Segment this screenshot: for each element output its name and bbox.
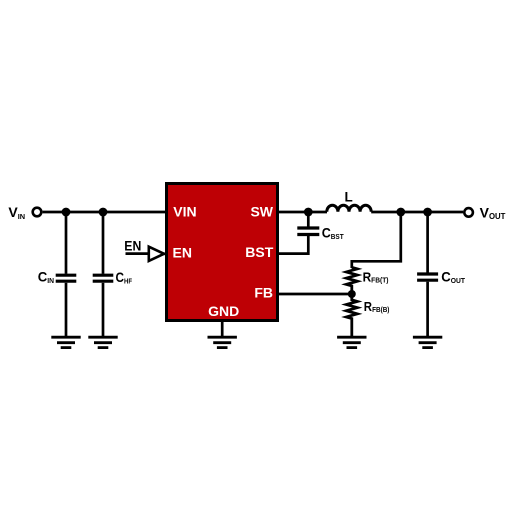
- junction out-COUT: [423, 208, 432, 217]
- svg-text:EN: EN: [173, 245, 192, 261]
- wire FB pin: [278, 293, 353, 296]
- op-amp U1 IC body: [167, 184, 278, 321]
- junction input-CHF: [99, 208, 108, 217]
- svg-text:CIN: CIN: [38, 269, 54, 285]
- ground CIN: [51, 337, 80, 347]
- inductor L: [327, 205, 371, 212]
- wire EN tip to IC: [164, 252, 168, 255]
- terminal VOUT: [464, 208, 473, 217]
- junction SW-CBST: [304, 208, 313, 217]
- capacitor CIN: [56, 275, 77, 281]
- wire CBST to BST pin: [278, 236, 309, 254]
- wire CHF top lead: [102, 212, 105, 274]
- resistor RFB(B): [346, 294, 357, 337]
- ground RFB(B): [337, 337, 366, 347]
- wire inductor to VOUT: [371, 211, 463, 214]
- svg-text:CHF: CHF: [116, 269, 133, 286]
- svg-text:FB: FB: [254, 285, 273, 301]
- junction out-FB tap: [396, 208, 405, 217]
- ground COUT: [413, 337, 442, 347]
- svg-text:CBST: CBST: [322, 225, 345, 241]
- wire CIN bottom lead: [65, 283, 68, 337]
- svg-text:RFB(B): RFB(B): [364, 299, 390, 314]
- wire FB tap down-left: [352, 212, 401, 268]
- capacitor CHF: [93, 275, 114, 281]
- wire CIN top lead: [65, 212, 68, 274]
- terminal VIN: [33, 208, 42, 217]
- svg-text:VIN: VIN: [173, 204, 196, 220]
- wire CHF bottom lead: [102, 283, 105, 337]
- svg-text:VOUT: VOUT: [480, 204, 506, 221]
- wire SW to inductor: [278, 211, 328, 214]
- wire EN input: [126, 252, 150, 255]
- node VIN input rail wire: [43, 211, 167, 214]
- svg-text:SW: SW: [250, 204, 273, 220]
- wire GND stub: [221, 321, 224, 338]
- capacitor CBST: [297, 228, 319, 235]
- capacitor COUT: [417, 274, 438, 280]
- svg-text:VIN: VIN: [8, 204, 25, 221]
- svg-text:EN: EN: [124, 238, 141, 254]
- wire COUT bottom lead: [426, 282, 429, 337]
- ground IC GND: [208, 337, 237, 347]
- wire COUT top lead: [426, 212, 429, 273]
- svg-text:COUT: COUT: [441, 269, 465, 285]
- buffer EN triangle: [149, 247, 164, 261]
- junction input-CIN: [62, 208, 71, 217]
- ground CHF: [88, 337, 117, 347]
- junction FB divider: [348, 290, 356, 298]
- resistor RFB(T): [346, 267, 357, 293]
- svg-text:BST: BST: [245, 244, 273, 260]
- svg-text:GND: GND: [208, 303, 239, 319]
- svg-text:RFB(T): RFB(T): [363, 270, 389, 284]
- wire CBST top lead: [307, 212, 310, 227]
- svg-text:L: L: [345, 190, 353, 205]
